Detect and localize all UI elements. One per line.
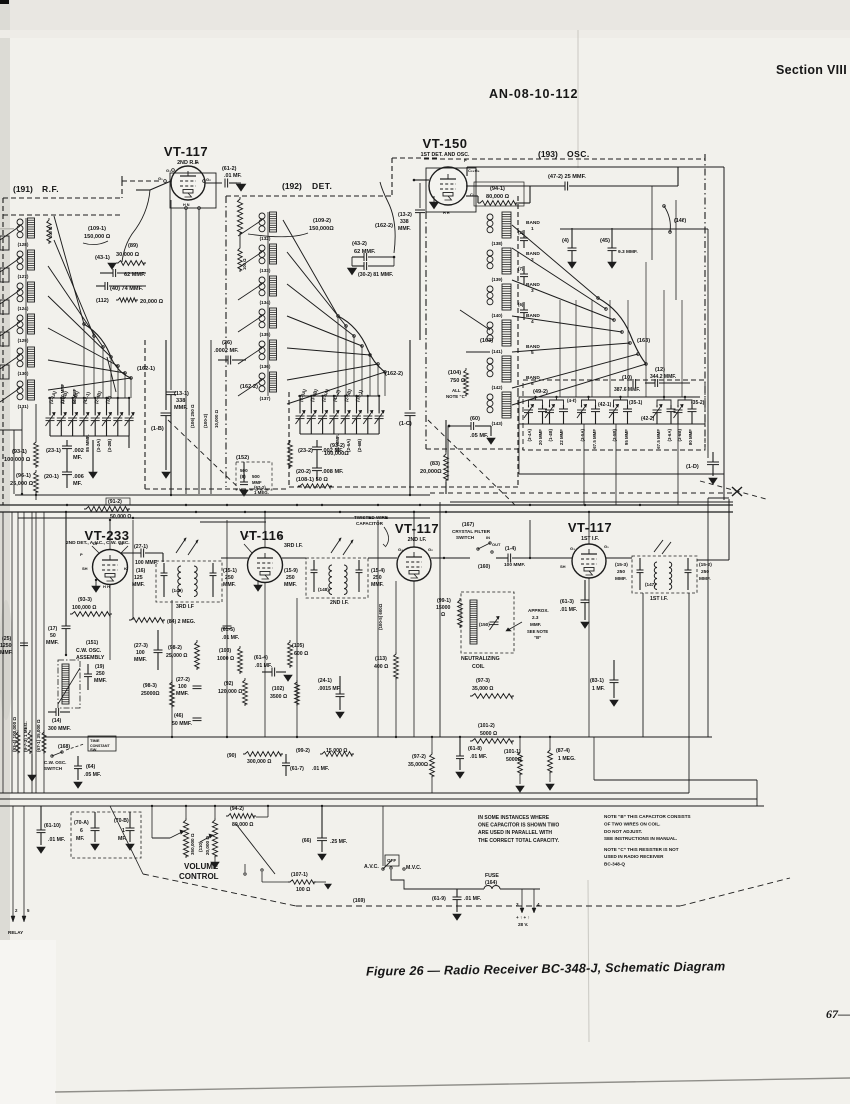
svg-text:25000Ω: 25000Ω	[141, 691, 160, 697]
svg-text:300,000 Ω: 300,000 Ω	[247, 759, 271, 765]
svg-text:(97-3): (97-3)	[476, 678, 490, 684]
svg-text:(23-1): (23-1)	[46, 448, 61, 454]
svg-text:MF.: MF.	[73, 481, 82, 487]
svg-text:(61-10): (61-10)	[44, 823, 61, 829]
svg-text:(6): (6)	[518, 302, 524, 307]
svg-text:(140): (140)	[492, 313, 503, 318]
time constant switch box	[88, 736, 116, 751]
svg-text:(46): (46)	[174, 713, 183, 719]
svg-text:(20-2): (20-2)	[296, 469, 311, 475]
svg-text:1ST I.F.: 1ST I.F.	[581, 536, 599, 542]
RF trimmer 5	[91, 417, 100, 419]
svg-text:(94-1): (94-1)	[490, 186, 505, 192]
svg-text:(61-4): (61-4)	[254, 655, 268, 661]
bus wire C	[0, 511, 733, 513]
svg-text:3RD I.F: 3RD I.F	[176, 604, 194, 610]
OSC coil (142)	[487, 358, 493, 364]
svg-text:(128): (128)	[18, 242, 29, 247]
svg-text:100: 100	[178, 684, 187, 690]
svg-text:(27-3): (27-3)	[134, 643, 148, 649]
RF coil (124) feed wire	[0, 290, 20, 304]
RF band switch fan wires	[54, 216, 84, 324]
svg-text:(9-7-3) 1 MEG.: (9-7-3) 1 MEG.	[23, 721, 28, 752]
svg-text:(90): (90)	[227, 753, 236, 759]
RF trimmer 7	[113, 417, 122, 419]
svg-text:100,000 Ω: 100,000 Ω	[72, 605, 96, 611]
RF plate choke wires	[185, 209, 187, 494]
svg-text:2ND I.F.: 2ND I.F.	[408, 537, 427, 543]
DET trimmer 5	[341, 415, 350, 417]
coupling capacitor (1-C)	[409, 340, 411, 410]
OSC trimmer pair 1	[529, 400, 543, 405]
svg-text:+ ↑ + ↑: + ↑ + ↑	[516, 915, 530, 920]
svg-text:MMF.: MMF.	[284, 582, 297, 588]
svg-text:250: 250	[286, 575, 295, 581]
1st IF trimmer arrows	[654, 540, 663, 552]
svg-text:OUT: OUT	[492, 542, 501, 547]
svg-text:(151): (151)	[86, 640, 98, 646]
ground for (89)	[108, 263, 116, 269]
tube VT-117 2nd RF	[171, 174, 215, 207]
OSC coil (143)	[487, 394, 493, 400]
svg-text:G₁: G₁	[604, 544, 609, 549]
svg-text:MMF.: MMF.	[94, 678, 107, 684]
svg-text:BAND: BAND	[526, 220, 540, 226]
svg-text:85 MMF.: 85 MMF.	[85, 434, 90, 452]
svg-text:1 MF.: 1 MF.	[592, 686, 605, 692]
DET coil (136)	[259, 341, 265, 347]
dashed crossing X mark	[732, 487, 742, 496]
dashed diagonal OSC left	[428, 420, 516, 506]
svg-text:100 Ω: 100 Ω	[242, 258, 247, 270]
svg-text:AN-08-10-112: AN-08-10-112	[489, 87, 578, 101]
svg-text:(3-5B): (3-5B)	[612, 428, 617, 441]
neutralizing coil	[470, 600, 477, 644]
svg-text:.006: .006	[73, 474, 84, 480]
svg-text:SH: SH	[82, 566, 88, 571]
svg-text:MF.: MF.	[76, 836, 85, 842]
RF coil (128)	[17, 219, 23, 225]
dashed diagonal fold right	[430, 492, 733, 494]
svg-text:(1-4): (1-4)	[505, 546, 516, 552]
svg-text:20,000 Ω: 20,000 Ω	[140, 299, 164, 305]
DET trimmer 3	[318, 415, 327, 417]
svg-text:4: 4	[537, 902, 540, 907]
capacitor (40) 74 MMF	[104, 282, 106, 290]
svg-text:APPROX.: APPROX.	[528, 608, 549, 613]
svg-text:(3-6A): (3-6A)	[667, 428, 672, 441]
DET coil (134) feed wire	[238, 284, 262, 300]
svg-text:(100-2): (100-2)	[203, 413, 208, 428]
svg-text:(96-1): (96-1)	[16, 473, 31, 479]
svg-text:.05 MF.: .05 MF.	[84, 772, 102, 778]
resistor (107) 100 ohm vertical	[47, 218, 51, 244]
DET band switch contacts	[337, 315, 340, 318]
svg-text:SWITCH: SWITCH	[44, 766, 63, 771]
svg-text:DP: DP	[119, 541, 125, 546]
DET coil (133) feed wire	[238, 252, 262, 268]
svg-text:IN: IN	[486, 535, 490, 540]
svg-text:C.W. OSC.: C.W. OSC.	[76, 648, 102, 654]
svg-text:(7): (7)	[518, 266, 524, 271]
RF ground arrow	[89, 472, 97, 478]
svg-text:3: 3	[516, 902, 519, 907]
svg-text:(15-9): (15-9)	[284, 568, 298, 574]
VT-233 cathode ground	[92, 586, 100, 592]
svg-text:(61-8): (61-8)	[468, 746, 482, 752]
svg-text:(1-4B): (1-4B)	[548, 428, 553, 441]
DET coil core lines	[267, 212, 269, 396]
neutralizing coil dashed box	[461, 592, 514, 653]
3rd IF trimmer arrows	[176, 538, 186, 553]
svg-text:(101-2): (101-2)	[478, 723, 495, 729]
svg-text:(109-2): (109-2)	[313, 218, 331, 224]
svg-text:(3-2B): (3-2B)	[107, 439, 112, 452]
svg-text:C.W. OSC.: C.W. OSC.	[44, 760, 66, 765]
volume control wiper arrow	[170, 832, 182, 838]
svg-text:Section VIII: Section VIII	[776, 63, 847, 77]
DET coil (132)	[259, 213, 265, 219]
OSC trimmer pair 3	[582, 400, 596, 405]
svg-text:FUSE: FUSE	[485, 873, 499, 879]
DET trimmer 4	[329, 415, 338, 417]
svg-text:31(.0 MMF: 31(.0 MMF	[60, 383, 65, 404]
svg-text:P: P	[196, 160, 199, 165]
svg-text:(3-6B): (3-6B)	[677, 428, 682, 441]
long vertical from plate bus	[651, 186, 653, 260]
svg-text:(91-2): (91-2)	[108, 499, 122, 505]
svg-text:P: P	[80, 552, 83, 557]
resistor (84) 2 MEG	[129, 618, 165, 623]
right lower wires	[594, 779, 757, 781]
svg-text:(67-1) 35,000 Ω: (67-1) 35,000 Ω	[36, 719, 41, 752]
svg-text:62 MMF.: 62 MMF.	[354, 249, 376, 255]
DET coil (132) feed wire	[238, 220, 262, 236]
svg-text:(61-2): (61-2)	[222, 166, 237, 172]
svg-text:.008 MF.: .008 MF.	[322, 469, 344, 475]
svg-text:MMF.: MMF.	[0, 650, 13, 656]
svg-text:TIME: TIME	[90, 738, 100, 743]
OSC coil (138)	[487, 214, 493, 220]
svg-text:3500 Ω: 3500 Ω	[270, 694, 287, 700]
svg-text:.01 MF.: .01 MF.	[470, 754, 488, 760]
svg-text:5000 Ω: 5000 Ω	[480, 731, 497, 737]
svg-text:BC-348-Q: BC-348-Q	[604, 861, 625, 866]
OSC trimmer shield dashed box	[523, 380, 705, 450]
svg-text:(24-1): (24-1)	[318, 678, 332, 684]
svg-text:(94-2): (94-2)	[230, 806, 244, 812]
svg-text:100 MMF.: 100 MMF.	[135, 560, 158, 566]
svg-text:G₃: G₃	[570, 546, 575, 551]
RF contact drop wires	[83, 324, 85, 398]
RF trimmer 3	[68, 417, 77, 419]
svg-text:(130): (130)	[18, 371, 29, 376]
svg-text:(61-7): (61-7)	[290, 766, 304, 772]
svg-text:(99-1): (99-1)	[437, 598, 451, 604]
svg-text:(27-2): (27-2)	[176, 677, 190, 683]
svg-text:(87-4): (87-4)	[556, 748, 570, 754]
lower box left vertical	[439, 502, 441, 737]
right side verticals	[707, 498, 709, 737]
svg-text:.01 MF.: .01 MF.	[48, 837, 66, 843]
IF transformer 2nd IF dashed box	[306, 558, 368, 598]
svg-text:(8): (8)	[240, 474, 246, 479]
3rd IF transformer coils	[161, 572, 168, 574]
RF coil (130)	[17, 348, 23, 354]
svg-text:IN SOME INSTANCES WHERE: IN SOME INSTANCES WHERE	[478, 815, 550, 821]
RF coil (129) feed wire	[0, 322, 20, 336]
svg-text:(30-2) 81 MMF.: (30-2) 81 MMF.	[358, 272, 394, 278]
svg-text:MMF.: MMF.	[176, 691, 189, 697]
svg-text:(89): (89)	[128, 243, 138, 249]
svg-text:15000: 15000	[436, 605, 451, 611]
svg-text:80,000 Ω: 80,000 Ω	[486, 194, 510, 200]
figure caption	[366, 959, 726, 978]
bottom dashed trapezoid	[143, 874, 296, 906]
svg-text:(60): (60)	[470, 416, 480, 422]
RF trimmer 6	[102, 417, 111, 419]
left edge wires	[0, 429, 22, 431]
svg-text:NOTE “B” THIS CAPACITOR CONS: NOTE “B” THIS CAPACITOR CONSISTS	[604, 814, 691, 819]
svg-text:35,000Ω: 35,000Ω	[408, 762, 428, 768]
OSC switch rotor	[598, 298, 646, 364]
RF coil (128) feed wire	[0, 226, 20, 240]
RF coil core lines	[25, 218, 27, 400]
svg-text:OSC.: OSC.	[567, 149, 590, 159]
svg-text:(133): (133)	[260, 268, 271, 273]
OSC interior vertical wires	[559, 300, 561, 397]
DET coil (135) feed wire	[238, 316, 262, 332]
svg-text:.01 MF.: .01 MF.	[464, 896, 482, 902]
OSC trimmer drop wires	[518, 397, 520, 474]
svg-text:1ST DET. AND OSC.: 1ST DET. AND OSC.	[421, 152, 470, 158]
DET trimmer 6	[352, 415, 361, 417]
svg-text:(1-B): (1-B)	[151, 426, 164, 432]
DET trimmer bus	[298, 395, 380, 397]
OSC switch left wires	[460, 310, 490, 330]
svg-text:22 MMF: 22 MMF	[559, 429, 564, 445]
tube VT-117 1st IF	[572, 544, 606, 578]
svg-text:(191): (191)	[13, 184, 33, 194]
svg-text:2.3: 2.3	[532, 615, 539, 620]
svg-text:(92): (92)	[224, 681, 233, 687]
volume control wires	[151, 806, 153, 838]
svg-text:(192): (192)	[282, 181, 302, 191]
svg-text:M.V.C.: M.V.C.	[406, 865, 422, 871]
tube VT-150	[428, 169, 474, 211]
scanner corner mark	[0, 0, 9, 4]
svg-text:(112): (112)	[96, 298, 109, 304]
plate lead VT-117 to coupling cap (61-2)	[205, 182, 222, 184]
OSC padder caps column	[520, 237, 528, 239]
svg-text:CAPACITOR: CAPACITOR	[356, 521, 384, 526]
DET switch rotor	[338, 316, 385, 372]
svg-text:100 Ω: 100 Ω	[296, 887, 310, 893]
svg-text:MMF.: MMF.	[134, 657, 147, 663]
svg-text:6: 6	[80, 828, 83, 834]
tube VT-233	[93, 550, 128, 585]
svg-text:NOTE “C” THIS RESISTER IS N: NOTE “C” THIS RESISTER IS NOT	[604, 847, 679, 852]
svg-text:“B”: “B”	[534, 635, 541, 640]
svg-text:G₂: G₂	[428, 547, 433, 552]
svg-text:(70-A): (70-A)	[74, 820, 89, 826]
svg-text:(43-1): (43-1)	[95, 255, 110, 261]
svg-text:125: 125	[134, 575, 143, 581]
relay terminal wires	[12, 806, 14, 916]
svg-text:(23-2): (23-2)	[298, 448, 313, 454]
svg-text:(160): (160)	[478, 564, 490, 570]
left vertical resistors	[16, 730, 20, 754]
svg-text:35,000 Ω: 35,000 Ω	[472, 686, 493, 692]
OSC band switch contacts	[597, 297, 600, 300]
svg-text:MF.: MF.	[73, 455, 82, 461]
right bus vertical wires	[723, 167, 725, 500]
OSC trimmer pair 4	[614, 400, 628, 405]
RF coil (129)	[17, 315, 23, 321]
VT-116 cathode ground	[254, 585, 262, 591]
svg-text:ASSEMBLY: ASSEMBLY	[76, 655, 105, 661]
svg-text:20,000 Ω: 20,000 Ω	[205, 836, 210, 855]
switch to fuse wire	[391, 870, 430, 889]
svg-text:Ω: Ω	[441, 612, 445, 618]
capacitor (13-1) 338 MMF	[170, 200, 172, 390]
svg-text:.05 MF.: .05 MF.	[470, 433, 489, 439]
svg-text:67—6: 67—6	[826, 1007, 850, 1021]
svg-text:250: 250	[373, 575, 382, 581]
svg-text:(13-1): (13-1)	[174, 391, 189, 397]
svg-text:67.5 MMF: 67.5 MMF	[656, 429, 661, 449]
svg-text:1ST I.F.: 1ST I.F.	[650, 596, 668, 602]
OSC coil (139)	[487, 250, 493, 256]
DET section dashed boundary	[226, 195, 392, 197]
DET coil (133)	[259, 245, 265, 251]
svg-text:(169): (169)	[353, 898, 365, 904]
svg-text:344.2 MMF.: 344.2 MMF.	[650, 374, 677, 380]
terminal 3	[521, 889, 523, 908]
svg-text:(167): (167)	[462, 522, 474, 528]
svg-text:25,000 Ω: 25,000 Ω	[166, 653, 187, 659]
svg-text:(14): (14)	[52, 718, 61, 724]
svg-text:(162-2): (162-2)	[375, 223, 393, 229]
svg-text:G₁: G₁	[158, 176, 163, 181]
svg-text:(2-6A): (2-6A)	[346, 439, 351, 452]
left column vertical wires	[2, 512, 4, 793]
svg-text:(20-1): (20-1)	[44, 474, 59, 480]
volume control ground	[211, 862, 219, 868]
svg-text:50: 50	[50, 633, 56, 639]
svg-text:(26): (26)	[222, 340, 232, 346]
DET trimmer 8	[375, 415, 384, 417]
svg-text:(97-2): (97-2)	[412, 754, 426, 760]
ground after (61-2)	[236, 184, 246, 191]
page fold line top	[577, 30, 579, 168]
svg-text:50,000 Ω: 50,000 Ω	[110, 514, 131, 520]
svg-text:(147): (147)	[645, 582, 656, 587]
svg-text:G₃: G₃	[166, 168, 171, 173]
svg-text:20 MMF: 20 MMF	[538, 429, 543, 445]
svg-text:R.F.: R.F.	[42, 184, 59, 194]
svg-text:750 Ω: 750 Ω	[450, 378, 466, 384]
svg-text:BAND: BAND	[526, 282, 540, 288]
svg-text:1000 Ω: 1000 Ω	[217, 656, 234, 662]
OSC coil (141)	[487, 322, 493, 328]
svg-text:67.5 MMF: 67.5 MMF	[592, 429, 597, 449]
svg-text:BAND: BAND	[526, 344, 540, 350]
bus junction dots	[170, 494, 172, 496]
VT-150 plate wire	[466, 167, 468, 176]
svg-text:SW.: SW.	[90, 747, 97, 752]
OSC trimmer ground bus	[519, 423, 705, 425]
svg-text:(98-3): (98-3)	[143, 683, 157, 689]
svg-text:400 Ω: 400 Ω	[374, 664, 388, 670]
svg-text:(3-2A): (3-2A)	[96, 439, 101, 452]
IF tube cathode drops	[109, 585, 111, 660]
svg-text:20,000Ω: 20,000Ω	[420, 469, 442, 475]
svg-text:C₂₄G₄: C₂₄G₄	[468, 168, 480, 173]
OSC top right switch contacts	[663, 205, 666, 208]
OSC trimmer pair 5	[657, 400, 671, 405]
svg-text:(113): (113)	[375, 656, 387, 662]
svg-text:(143): (143)	[492, 421, 503, 426]
svg-text:MMF.: MMF.	[398, 226, 411, 232]
RF band switch contacts	[83, 323, 86, 326]
IF tube grid top wires	[413, 512, 415, 534]
svg-text:100 Ω: 100 Ω	[48, 226, 53, 238]
volume control resistor 350,000	[183, 818, 188, 858]
svg-text:250: 250	[617, 569, 625, 575]
tube VT-233 pin stubs	[109, 533, 111, 549]
DET curve to grid cap	[380, 182, 395, 253]
svg-text:ARE USED IN PARALLEL WITH: ARE USED IN PARALLEL WITH	[478, 830, 552, 836]
DET contact drop wires	[337, 316, 339, 396]
lower box top edge	[450, 501, 733, 503]
svg-text:(163): (163)	[480, 338, 493, 344]
svg-text:(127): (127)	[18, 274, 29, 279]
svg-text:NOTE “C”: NOTE “C”	[446, 394, 467, 399]
svg-text:(43-2): (43-2)	[352, 241, 367, 247]
svg-text:(162-1): (162-1)	[137, 366, 155, 372]
svg-text:100 MMF.: 100 MMF.	[504, 562, 525, 568]
svg-text:(15-3): (15-3)	[615, 562, 628, 568]
svg-text:VT-117: VT-117	[395, 521, 439, 536]
svg-text:VT-150: VT-150	[423, 136, 468, 151]
svg-text:(15-1): (15-1)	[223, 568, 237, 574]
svg-text:10,000 Ω: 10,000 Ω	[214, 409, 219, 428]
svg-text:(100-5) 600Ω: (100-5) 600Ω	[378, 603, 383, 630]
svg-text:(131): (131)	[18, 404, 29, 409]
svg-text:(124): (124)	[18, 306, 29, 311]
grid cap lead VT-117	[150, 181, 171, 190]
svg-text:(137): (137)	[260, 396, 271, 401]
RF coil (127) feed wire	[0, 258, 20, 272]
bus wire D	[18, 517, 430, 519]
svg-text:300 MMF.: 300 MMF.	[48, 726, 71, 732]
svg-text:28 V.: 28 V.	[518, 922, 528, 927]
DET trimmer 7	[363, 415, 372, 417]
1st IF wires to bus	[697, 559, 729, 561]
svg-text:G₂: G₂	[278, 534, 283, 539]
DET coil (137)	[259, 373, 265, 379]
dashed diagonal fold left	[168, 420, 245, 494]
RF coil (124)	[17, 283, 23, 289]
IF strip outer box	[44, 736, 712, 738]
2nd IF transformer coils	[311, 569, 318, 571]
svg-text:(25): (25)	[2, 636, 11, 642]
RF (109-1) pointer curve	[83, 241, 108, 245]
svg-text:(84) 2 MEG.: (84) 2 MEG.	[167, 619, 196, 625]
svg-text:(2-6B): (2-6B)	[357, 439, 362, 452]
svg-text:500: 500	[252, 474, 260, 479]
